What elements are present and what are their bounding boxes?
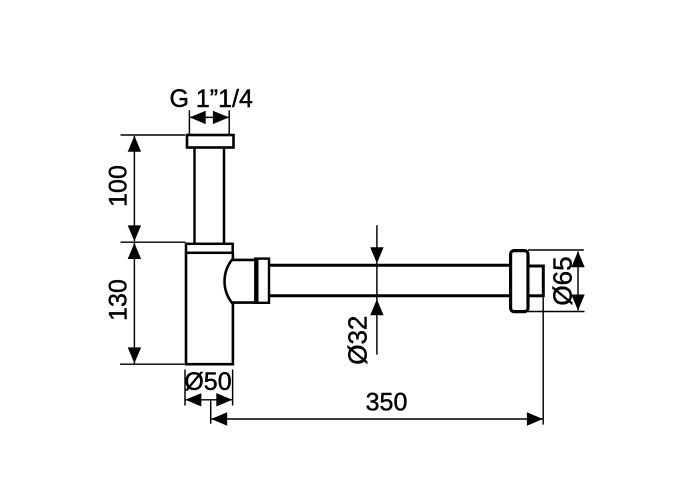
dimension D50 arrow right (216, 393, 232, 406)
dimension G 1"1/4 line (190, 116, 229, 118)
tail pipe (vertical inlet tube) (195, 148, 225, 244)
svg-text:130: 130 (105, 279, 133, 321)
dimension D65 extension line bottom (528, 311, 585, 313)
dimension 100 arrow down (128, 225, 141, 241)
dimension G 1"1/4 extension line right (228, 110, 230, 134)
wall stub pipe (528, 266, 543, 296)
coupling nut (255, 259, 269, 303)
svg-text:350: 350 (366, 389, 408, 417)
wall pipe (horizontal outlet tube) (268, 265, 511, 296)
dimension 100 line (133, 136, 135, 241)
inlet flange (top) (187, 135, 234, 148)
dimension D65 arrow down (571, 295, 584, 311)
dimension D50 line (185, 399, 232, 401)
svg-text:100: 100 (105, 165, 133, 207)
dimension 100 extension line top (121, 134, 186, 136)
wall rosette (511, 251, 528, 312)
svg-text:Ø65: Ø65 (548, 256, 578, 305)
dimension D50 extension line right (232, 370, 234, 406)
dimension 350 arrow left (211, 412, 227, 425)
dimension 130 arrow up (128, 243, 141, 259)
dimension G 1"1/4 arrow left (190, 111, 206, 124)
dimension D50 arrow left (185, 393, 201, 406)
dimension D32 arrow down (370, 247, 383, 263)
dimension D65 line (577, 252, 579, 311)
dimension 100 arrow up (128, 136, 141, 152)
dimension 350 arrow right (527, 412, 543, 425)
bottle body (186, 253, 233, 364)
dimension 350 line (211, 418, 543, 420)
dimension 100/130 shared extension line (121, 241, 186, 243)
dimension D32 line (376, 225, 378, 354)
dimension G 1"1/4 arrow right (213, 111, 229, 124)
dimension 350 start tick (210, 400, 212, 424)
dimension D65 extension line top (528, 249, 584, 251)
svg-text:Ø50: Ø50 (184, 368, 231, 396)
dimension D50 extension line left (184, 370, 186, 406)
svg-text:Ø32: Ø32 (343, 316, 373, 365)
coupling nut thick face (255, 259, 258, 303)
dimension D65 arrow up (571, 251, 584, 267)
dimension 130 line (133, 243, 135, 363)
elbow outlet (225, 260, 256, 303)
dimension D32 arrow up (370, 299, 383, 315)
bottle cap ring (186, 244, 233, 253)
dimension 350 extension line right (542, 298, 544, 425)
dimension 130 arrow down (128, 347, 141, 363)
dimension G 1"1/4 extension line left (188, 110, 190, 134)
dimension 130 extension line bottom (120, 363, 185, 365)
svg-text:G 1”1/4: G 1”1/4 (170, 85, 253, 113)
